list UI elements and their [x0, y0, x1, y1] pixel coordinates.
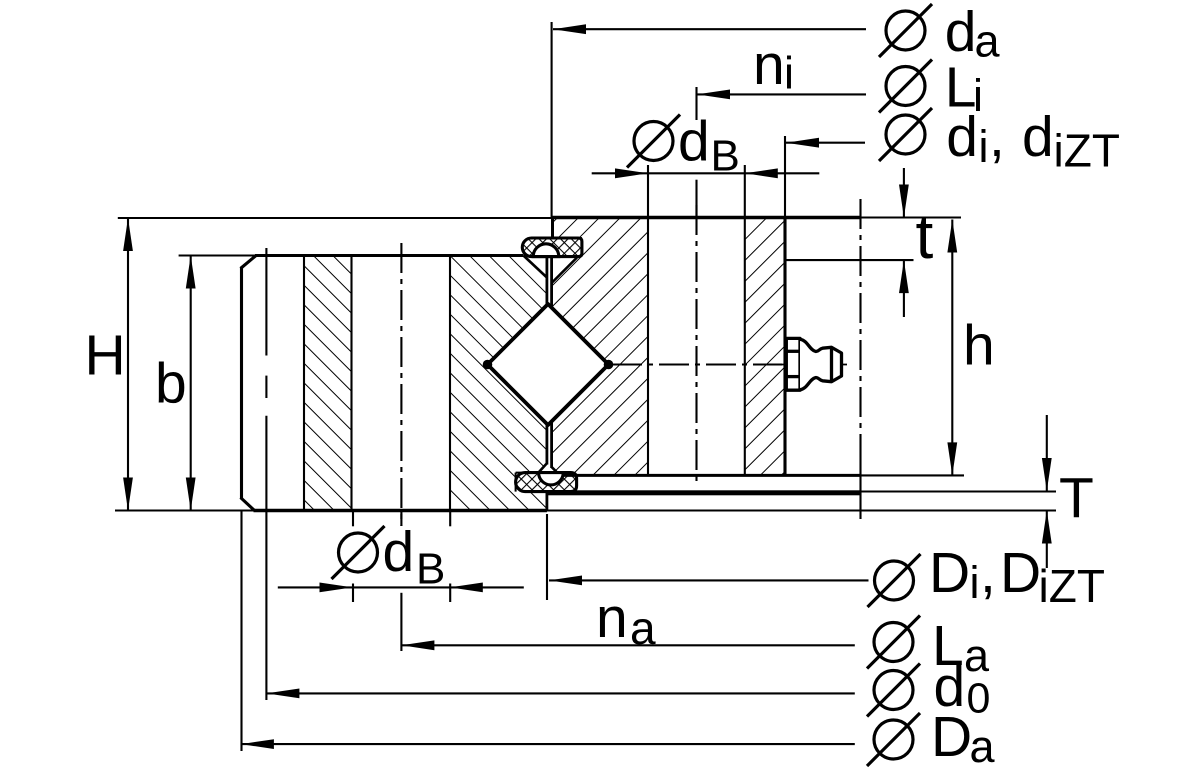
inner ring bolt hole right edge — [744, 218, 746, 476]
d0 extension line — [265, 511, 267, 701]
inner ring ZT bore centerline — [859, 199, 861, 457]
svg-text:n: n — [596, 586, 628, 650]
svg-text:D: D — [931, 705, 972, 769]
outer ring top face — [255, 254, 523, 257]
inner ring seal chamfer bottom — [552, 467, 560, 476]
crossed roller diamond section — [488, 304, 609, 425]
inner ring bottom face — [552, 474, 861, 477]
outer ring lower slit face — [546, 492, 549, 511]
inner ring bore edge — [783, 218, 786, 476]
svg-text:,: , — [989, 105, 1005, 169]
inner ring bore recess line t — [785, 259, 914, 261]
svg-text:i: i — [970, 557, 980, 608]
label diameter dB top — [627, 115, 680, 168]
outer ring seal slot — [516, 472, 540, 474]
svg-text:B: B — [416, 545, 445, 594]
dimension Da — [241, 743, 855, 745]
outer ring hatched band 2 raceway side — [450, 256, 547, 511]
grease nipple — [786, 338, 841, 390]
inner ring bottom extension right — [861, 474, 964, 476]
dimension da — [553, 28, 866, 30]
top seal cross-hatched — [522, 238, 582, 257]
inner ring top face — [553, 216, 862, 219]
dimension t arrows — [899, 185, 909, 218]
outer ring seal chamfer top — [523, 256, 547, 278]
b extension line — [179, 254, 256, 256]
svg-text:H: H — [85, 324, 126, 388]
dimension h — [951, 220, 953, 476]
outer ring bolt hole right edge — [449, 256, 451, 511]
svg-text:T: T — [1059, 466, 1094, 530]
dimension na La — [401, 644, 854, 646]
ni extension line — [695, 87, 697, 120]
dimension b — [190, 256, 192, 511]
outer ring d0 edge line — [265, 248, 267, 356]
outer ring hatched band 1 — [304, 256, 352, 511]
svg-text:,: , — [980, 541, 996, 605]
roller corner radius right — [604, 360, 614, 370]
seal support shim strip — [547, 490, 861, 495]
label diameter Li — [879, 60, 932, 113]
outer ring raceway slit line lower — [546, 423, 549, 465]
label diameter da — [879, 4, 932, 57]
inner ring top extension right — [861, 216, 961, 218]
roller corner radius left — [483, 360, 493, 370]
svg-text:i: i — [784, 48, 794, 99]
inner ring bolt hole left edge — [647, 218, 649, 476]
inner ring left face above seal — [551, 218, 554, 239]
inner ring bolt hole centerline — [695, 205, 697, 487]
svg-text:iZT: iZT — [1039, 560, 1105, 612]
svg-text:a: a — [630, 602, 656, 654]
svg-text:a: a — [970, 721, 996, 772]
outer ring raceway slit line upper — [546, 257, 549, 307]
svg-text:d: d — [945, 0, 977, 64]
svg-text:d: d — [946, 105, 978, 169]
grease nipple centerline — [780, 364, 847, 366]
label diameter Di DiZT — [868, 554, 921, 607]
bottom seal cross-hatched — [516, 473, 577, 492]
outer ring bolt hole centerline — [400, 243, 402, 526]
label diameter La — [867, 616, 920, 669]
dimension ni — [697, 93, 866, 95]
dimension Di DiZT — [549, 579, 869, 581]
La extension line — [400, 593, 402, 651]
outer ring seal chamfer bottom — [538, 463, 547, 472]
outer ring bolt hole left edge — [350, 256, 352, 511]
outer ring left edge — [240, 268, 243, 498]
svg-text:n: n — [753, 33, 785, 97]
H top extension line — [118, 217, 553, 219]
di extension line — [784, 136, 786, 218]
inner ring hatched band 2 — [745, 218, 785, 476]
dimension dB top — [592, 172, 820, 174]
svg-text:D: D — [929, 541, 970, 605]
outer ring bottom chamfer — [241, 498, 255, 511]
inner ring seal chamfer top — [552, 258, 577, 284]
svg-text:iZT: iZT — [1054, 125, 1120, 177]
da extension line — [551, 22, 553, 218]
label diameter d0 — [867, 664, 920, 717]
T arrow lines — [1046, 415, 1048, 491]
dimension T arrows — [1042, 458, 1052, 491]
dimension di diZT — [786, 142, 865, 144]
svg-text:h: h — [963, 314, 995, 378]
Di extension line — [546, 514, 548, 600]
svg-text:a: a — [964, 630, 990, 681]
svg-text:d: d — [383, 520, 415, 584]
inner ring seal notch ceiling — [553, 237, 582, 239]
roller axis centerline — [612, 363, 782, 365]
label diameter Da — [867, 713, 920, 766]
inner ring raceway slit line lower — [550, 423, 553, 469]
Da extension line — [240, 511, 242, 751]
label diameter di diZT — [879, 108, 932, 161]
dimension d0 — [266, 692, 854, 694]
t arrow lines — [903, 168, 905, 218]
outer ring top chamfer — [241, 256, 257, 269]
dB bottom extension lines — [352, 512, 354, 526]
inner ring raceway slit line upper — [550, 257, 553, 307]
dimension H — [127, 218, 129, 511]
T top extension line — [861, 490, 1057, 492]
bottom plane extension line — [115, 509, 1056, 511]
svg-text:d: d — [1022, 105, 1054, 169]
dB top extension lines — [647, 165, 649, 218]
svg-text:b: b — [155, 352, 187, 416]
outer ring band edge line — [303, 256, 305, 511]
svg-text:a: a — [975, 16, 1001, 67]
svg-text:D: D — [1000, 541, 1041, 605]
outer ring bottom face — [254, 509, 547, 512]
label diameter dB bottom — [332, 526, 385, 579]
svg-text:i: i — [979, 121, 989, 172]
svg-text:d: d — [678, 110, 710, 174]
dimension dB bottom — [278, 586, 524, 588]
inner ring hatched band 1 raceway side — [552, 218, 648, 476]
svg-text:B: B — [711, 132, 740, 181]
svg-text:t: t — [916, 200, 934, 272]
